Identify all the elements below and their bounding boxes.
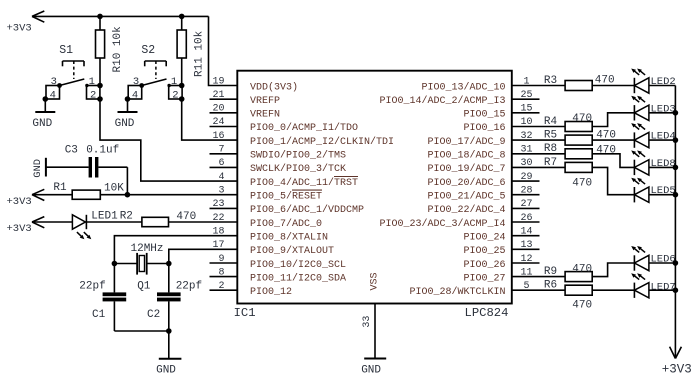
- svg-text:10K: 10K: [104, 182, 124, 194]
- svg-text:LED8: LED8: [651, 158, 676, 170]
- svg-text:PIO0_24: PIO0_24: [463, 233, 505, 244]
- svg-text:470: 470: [595, 75, 615, 87]
- svg-text:PIO0_8/XTALIN: PIO0_8/XTALIN: [250, 232, 328, 244]
- svg-text:LPC824: LPC824: [465, 306, 509, 320]
- svg-text:LED7: LED7: [651, 281, 676, 293]
- svg-text:LED1: LED1: [91, 210, 118, 222]
- svg-text:470: 470: [596, 144, 616, 156]
- svg-text:R10 10k: R10 10k: [112, 26, 124, 73]
- svg-text:+3V3: +3V3: [7, 223, 32, 235]
- svg-text:S2: S2: [141, 44, 155, 57]
- svg-text:LED2: LED2: [651, 76, 676, 88]
- svg-text:R4: R4: [544, 116, 558, 128]
- svg-text:PIO0_25: PIO0_25: [463, 246, 505, 257]
- svg-text:PIO0_19/ADC_7: PIO0_19/ADC_7: [427, 163, 505, 175]
- svg-text:GND: GND: [115, 118, 135, 130]
- svg-text:4: 4: [132, 89, 138, 101]
- svg-text:R7: R7: [544, 157, 557, 169]
- svg-text:470: 470: [572, 263, 592, 275]
- svg-text:C3: C3: [65, 145, 78, 157]
- svg-text:3: 3: [133, 76, 139, 88]
- svg-text:R5: R5: [544, 130, 557, 142]
- svg-text:PIO0_5/RESET: PIO0_5/RESET: [250, 191, 322, 203]
- svg-text:4: 4: [50, 89, 56, 101]
- svg-text:1: 1: [89, 76, 95, 88]
- svg-text:GND: GND: [156, 364, 176, 376]
- svg-text:PIO0_12: PIO0_12: [250, 287, 292, 298]
- svg-text:PIO0_13/ADC_10: PIO0_13/ADC_10: [421, 81, 505, 93]
- svg-text:LED3: LED3: [651, 103, 676, 115]
- svg-text:IC1: IC1: [234, 306, 256, 320]
- svg-text:PIO0_22/ADC_4: PIO0_22/ADC_4: [427, 204, 505, 216]
- svg-text:R6: R6: [544, 280, 557, 292]
- svg-text:PIO0_21/ADC_5: PIO0_21/ADC_5: [427, 191, 505, 203]
- svg-text:VDD(3V3): VDD(3V3): [250, 81, 298, 93]
- svg-text:R1: R1: [53, 182, 67, 194]
- svg-text:PIO0_28/WKTCLKIN: PIO0_28/WKTCLKIN: [409, 286, 505, 298]
- svg-text:PIO0_15: PIO0_15: [463, 110, 505, 121]
- svg-text:470: 470: [572, 113, 592, 125]
- svg-text:22pf: 22pf: [176, 281, 202, 293]
- svg-text:470: 470: [572, 299, 592, 311]
- svg-text:12MHz: 12MHz: [131, 243, 164, 255]
- svg-text:0.1uf: 0.1uf: [86, 145, 119, 157]
- svg-text:PIO0_9/XTALOUT: PIO0_9/XTALOUT: [250, 245, 334, 257]
- svg-text:PIO0_18/ADC_8: PIO0_18/ADC_8: [427, 150, 505, 162]
- svg-text:C2: C2: [147, 309, 160, 321]
- svg-text:R8: R8: [544, 143, 557, 155]
- svg-text:PIO0_7/ADC_0: PIO0_7/ADC_0: [250, 218, 322, 230]
- svg-text:C1: C1: [92, 309, 106, 321]
- svg-text:PIO0_17/ADC_9: PIO0_17/ADC_9: [427, 136, 505, 148]
- svg-text:Q1: Q1: [137, 281, 151, 293]
- svg-text:470: 470: [572, 178, 592, 190]
- svg-text:PIO0_11/I2C0_SDA: PIO0_11/I2C0_SDA: [250, 272, 346, 284]
- svg-text:+3V3: +3V3: [662, 362, 692, 376]
- svg-text:SWCLK/PIO0_3/TCK: SWCLK/PIO0_3/TCK: [250, 163, 346, 175]
- svg-text:R11 10k: R11 10k: [193, 30, 205, 77]
- svg-text:PIO0_10/I2C0_SCL: PIO0_10/I2C0_SCL: [250, 259, 346, 271]
- svg-text:PIO0_16: PIO0_16: [463, 123, 505, 134]
- svg-text:LED6: LED6: [651, 254, 676, 266]
- svg-text:GND: GND: [32, 118, 52, 130]
- svg-text:PIO0_14/ADC_2/ACMP_I3: PIO0_14/ADC_2/ACMP_I3: [379, 95, 505, 107]
- svg-text:PIO0_26: PIO0_26: [463, 260, 505, 271]
- svg-text:2: 2: [172, 89, 178, 101]
- svg-text:22pf: 22pf: [79, 281, 105, 293]
- svg-text:VREFP: VREFP: [250, 96, 280, 107]
- svg-text:LED4: LED4: [651, 131, 676, 143]
- svg-text:+3V3: +3V3: [7, 196, 32, 208]
- svg-text:+3V3: +3V3: [7, 22, 32, 34]
- svg-text:PIO0_1/ACMP_I2/CLKIN/TDI: PIO0_1/ACMP_I2/CLKIN/TDI: [250, 136, 394, 148]
- svg-text:PIO0_23/ADC_3/ACMP_I4: PIO0_23/ADC_3/ACMP_I4: [379, 218, 505, 230]
- svg-text:PIO0_0/ACMP_I1/TDO: PIO0_0/ACMP_I1/TDO: [250, 122, 358, 134]
- svg-text:1: 1: [171, 76, 177, 88]
- svg-text:470: 470: [596, 129, 616, 141]
- svg-text:SWDIO/PIO0_2/TMS: SWDIO/PIO0_2/TMS: [250, 150, 346, 162]
- svg-text:33: 33: [362, 316, 373, 328]
- svg-text:PIO0_27: PIO0_27: [463, 273, 505, 284]
- svg-text:VREFN: VREFN: [250, 110, 280, 121]
- svg-text:VSS: VSS: [369, 272, 380, 290]
- svg-text:R2: R2: [120, 210, 133, 222]
- svg-text:R3: R3: [544, 75, 557, 87]
- svg-text:PIO0_4/ADC_11/TRST: PIO0_4/ADC_11/TRST: [250, 177, 358, 189]
- svg-text:GND: GND: [361, 365, 381, 377]
- svg-text:LED5: LED5: [651, 185, 676, 197]
- svg-text:R9: R9: [544, 266, 557, 278]
- svg-text:2: 2: [90, 89, 96, 101]
- svg-text:GND: GND: [32, 159, 44, 178]
- svg-text:470: 470: [176, 211, 196, 223]
- svg-text:PIO0_20/ADC_6: PIO0_20/ADC_6: [427, 177, 505, 189]
- svg-text:PIO0_6/ADC_1/VDDCMP: PIO0_6/ADC_1/VDDCMP: [250, 204, 364, 216]
- svg-text:3: 3: [51, 76, 57, 88]
- svg-text:S1: S1: [59, 44, 73, 57]
